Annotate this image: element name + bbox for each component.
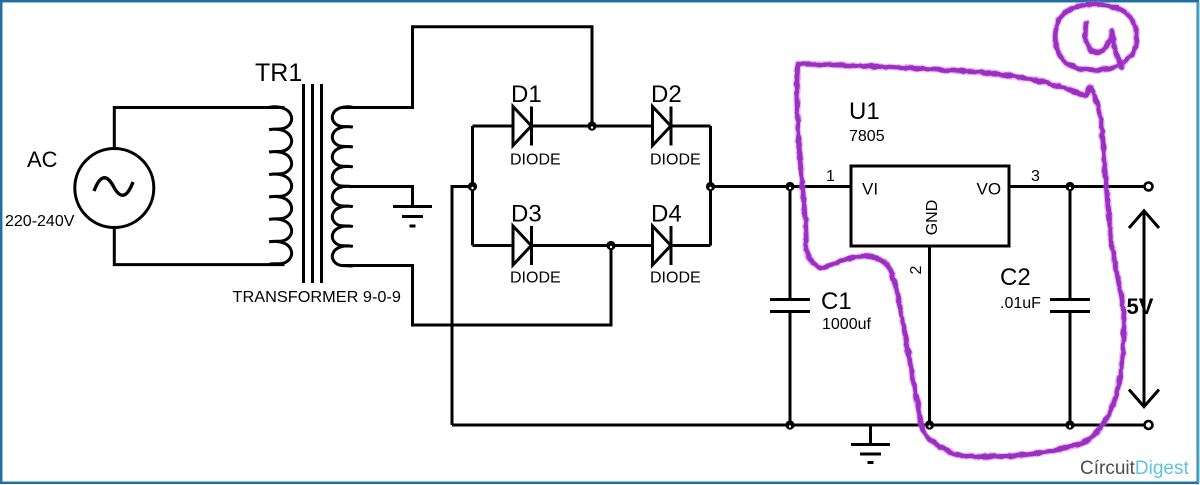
node bridge left junction (468, 182, 477, 191)
transformer core lines (304, 84, 322, 283)
capacitor C2 (1050, 187, 1090, 426)
node bridge bottom junction (606, 241, 615, 250)
svg-text:DIODE: DIODE (650, 152, 701, 169)
svg-text:D4: D4 (651, 201, 682, 228)
annotation circled mark (1055, 4, 1136, 70)
wire bridge output to U1 (711, 185, 852, 188)
svg-text:5V: 5V (1127, 294, 1154, 319)
svg-text:.01uF: .01uF (1000, 295, 1041, 312)
annotation purple loop (797, 4, 1137, 456)
wire bridge bottom row (473, 244, 711, 247)
sine symbol (94, 178, 133, 195)
svg-text:TR1: TR1 (255, 59, 302, 87)
svg-text:3: 3 (1031, 168, 1040, 185)
svg-text:U1: U1 (849, 98, 880, 125)
node output terminal (1145, 183, 1153, 191)
node C1 bottom (785, 420, 794, 429)
svg-text:C1: C1 (821, 288, 852, 315)
svg-text:DIODE: DIODE (510, 270, 561, 287)
wire bridge right edge (709, 126, 712, 246)
node bridge right junction (706, 182, 715, 191)
diode D4 (653, 226, 672, 265)
node ground terminal (1145, 421, 1153, 429)
svg-text:D3: D3 (511, 201, 542, 228)
5V arrow (1129, 211, 1159, 407)
wire secondary bottom to bridge bottom (343, 246, 611, 326)
AC source circle (75, 149, 154, 228)
node C2 top (1065, 182, 1074, 191)
annotation digit mark (1085, 23, 1122, 67)
wire bridge left edge (471, 126, 474, 246)
node pin2 bottom (925, 420, 934, 429)
wire secondary center tap (349, 187, 413, 206)
transformer TR1 primary winding (269, 107, 291, 265)
svg-text:VO: VO (977, 180, 1002, 199)
svg-text:1000uf: 1000uf (822, 316, 871, 333)
diode D2 (653, 107, 672, 146)
svg-text:7805: 7805 (849, 128, 885, 145)
node C1 top (785, 182, 794, 191)
node C2 bottom (1065, 420, 1074, 429)
svg-text:CírcuitDigest: CírcuitDigest (1080, 458, 1189, 479)
diode D3 (513, 226, 532, 265)
wire U1 pin3 output (1009, 185, 1145, 188)
wire bottom rail (452, 424, 1145, 427)
wire AC bottom to primary (114, 228, 284, 265)
svg-text:GND: GND (924, 200, 941, 236)
svg-text:DIODE: DIODE (510, 152, 561, 169)
ground center tap (393, 207, 432, 227)
svg-text:D2: D2 (651, 81, 682, 108)
transformer TR1 secondary winding (332, 107, 352, 267)
svg-text:DIODE: DIODE (650, 270, 701, 287)
node bridge top junction (587, 121, 596, 130)
svg-text:C2: C2 (1000, 264, 1031, 291)
svg-text:D1: D1 (511, 81, 542, 108)
capacitor C1 (770, 187, 810, 426)
wire bridge left to bottom rail (452, 187, 473, 426)
svg-text:2: 2 (908, 265, 925, 274)
diode D1 (513, 107, 532, 146)
wire AC top to primary (114, 108, 284, 149)
op-amp U1 regulator box (851, 166, 1009, 246)
svg-text:TRANSFORMER 9-0-9: TRANSFORMER 9-0-9 (233, 289, 402, 306)
wire U1 pin2 gnd (928, 246, 931, 425)
wire bridge top row (473, 125, 711, 128)
ground bottom (851, 425, 890, 463)
wire secondary top to bridge top (342, 27, 592, 126)
svg-text:220-240V: 220-240V (5, 213, 75, 230)
svg-text:VI: VI (862, 180, 878, 199)
svg-text:1: 1 (826, 168, 835, 185)
svg-text:AC: AC (27, 147, 58, 172)
